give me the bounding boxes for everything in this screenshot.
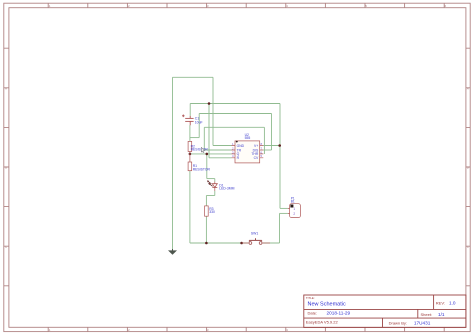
wire C1 bottom to R2 top <box>189 125 191 141</box>
wire DIS net vertical x=199 <box>198 114 200 138</box>
svg-text:CV: CV <box>254 156 259 160</box>
wire TR net vertical x=204.3 <box>203 127 205 150</box>
svg-text:1.0: 1.0 <box>449 300 456 305</box>
wire V+ pin to VCC junction <box>263 145 280 147</box>
svg-text:TITLE:: TITLE: <box>306 296 315 300</box>
wire R divider node to U2 pin 3 Q <box>190 153 232 155</box>
wire bottom rail right of SW1 <box>263 242 280 244</box>
junction node V+ pin / VCC riser <box>278 144 281 147</box>
wire R3 top lead <box>205 196 207 206</box>
svg-text:330: 330 <box>209 210 215 214</box>
wire C1 top connection <box>189 104 191 117</box>
wire GND net top horizontal y=77 <box>173 76 214 78</box>
wire GND net vertical x=213 <box>212 77 214 145</box>
junction node R3 / bottom rail <box>205 242 208 245</box>
wire DIS net horizontal y=113.5 <box>199 113 271 115</box>
pin numbers U2 8,7,6,5 <box>261 142 263 158</box>
svg-text:555: 555 <box>245 136 251 140</box>
wire R1 bottom to rail <box>189 171 191 243</box>
junction node VCC / R-pin riser <box>208 102 211 105</box>
wire to D1 anode <box>207 178 215 180</box>
wire to P1 pin 2 <box>280 212 288 214</box>
pin name labels U2 GND TR Q R <box>237 144 245 160</box>
wire VCC net horizontal y=104 <box>190 103 280 105</box>
wire DIS net vertical x=271.5 <box>271 114 273 151</box>
junction node R2/R1 divider <box>189 153 192 156</box>
wire GND net left vertical x=172.5 <box>172 77 174 249</box>
wire DIS net link horizontal y=137.6 <box>190 137 199 139</box>
wire to U2 pin 2 TR <box>204 149 231 151</box>
wire D1 anode stub <box>214 179 216 182</box>
svg-text:Sheet:: Sheet: <box>421 312 433 317</box>
wire to P1 pin 1 <box>280 207 288 209</box>
capacitor C1 <box>182 115 194 126</box>
svg-text:1/1: 1/1 <box>438 312 445 317</box>
switch SW1 <box>242 238 270 244</box>
svg-text:LED-3MM: LED-3MM <box>219 187 234 191</box>
svg-text:17U431: 17U431 <box>414 321 431 326</box>
junction node SW1 left pin <box>240 242 243 245</box>
svg-text:Date:: Date: <box>308 310 318 315</box>
svg-text:10uF: 10uF <box>195 120 203 124</box>
wire D1 cathode stub <box>214 191 216 196</box>
pin name labels U2 V+ DIS THR CV <box>251 144 259 160</box>
wire VCC to R pin vertical x=209 <box>208 104 210 158</box>
svg-text:SW1: SW1 <box>251 231 258 235</box>
svg-text:New Schematic: New Schematic <box>308 302 346 308</box>
svg-text:2018-11-29: 2018-11-29 <box>327 310 351 315</box>
wire TR-THR net horizontal y=127.3 <box>204 126 264 128</box>
svg-text:RESISTOR: RESISTOR <box>191 147 209 151</box>
svg-text:REV:: REV: <box>436 300 445 305</box>
U2 right pin stubs 8-5 <box>260 146 264 158</box>
resistor R3 <box>205 206 209 216</box>
ground <box>168 249 177 255</box>
pin numbers U2 1,2,3,4 <box>232 142 234 158</box>
wire to U2 pin 1 GND <box>213 145 232 147</box>
wire R3 bottom to rail <box>205 216 207 243</box>
U2 left pin stubs 1-4 <box>232 146 236 158</box>
svg-text:B1: B1 <box>291 200 295 204</box>
wire P1 pin 2 vertical x=279.5 <box>279 213 281 243</box>
svg-text:1: 1 <box>293 207 295 211</box>
svg-text:Drawn By:: Drawn By: <box>389 321 407 326</box>
LED D1 <box>207 181 217 192</box>
title block <box>304 295 466 327</box>
resistor R1 <box>188 154 192 171</box>
wire VCC right vertical x=280 <box>279 104 281 209</box>
wire to U2 pin 7 DIS <box>263 149 271 151</box>
connector P1 <box>288 204 301 218</box>
svg-text:B: B <box>5 166 7 170</box>
wire D1 to R3 horizontal y=195.5 <box>206 195 214 197</box>
wire bottom rail left of SW1 <box>190 242 248 244</box>
resistor R2 <box>188 141 192 154</box>
svg-text:B: B <box>467 166 469 170</box>
svg-text:A: A <box>5 87 7 91</box>
svg-text:RESISTOR: RESISTOR <box>193 167 211 171</box>
mouse cursor <box>201 147 205 152</box>
wire THR net vertical x=264.5 <box>263 127 265 154</box>
IC U2 555 timer body <box>235 141 260 163</box>
wire to U2 pin 4 R <box>209 157 232 159</box>
wire Q net to LED vertical x=206.8 <box>206 154 208 179</box>
svg-text:EasyEDA V5.9.22: EasyEDA V5.9.22 <box>306 320 339 325</box>
svg-text:2: 2 <box>293 212 295 216</box>
svg-text:A: A <box>467 87 469 91</box>
junction node Q net / LED branch <box>206 153 209 156</box>
